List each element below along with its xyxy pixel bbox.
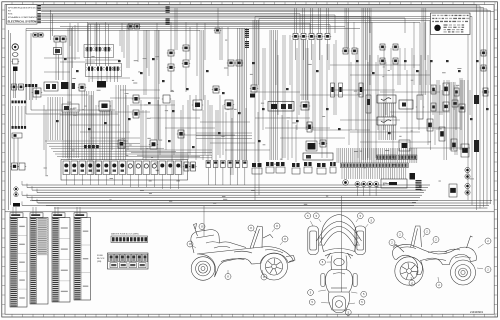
callout balloon	[356, 213, 363, 222]
relay K3	[85, 47, 93, 51]
wire bus vertical V1	[238, 28, 247, 160]
title block	[7, 5, 39, 25]
component RC2	[443, 83, 449, 95]
relay K11	[167, 64, 175, 71]
table header	[10, 213, 23, 218]
misc connectors	[56, 58, 489, 148]
wire bundle x155	[155, 30, 159, 140]
sensor B10	[132, 110, 140, 118]
sensor B8	[78, 84, 86, 91]
sensor B15	[306, 122, 313, 132]
wire bundle x175	[175, 8, 177, 50]
callout balloon	[309, 299, 330, 305]
wire	[295, 8, 297, 60]
callout balloon	[313, 213, 321, 222]
component RC9	[439, 127, 445, 141]
wire bundle x144	[144, 30, 146, 95]
switch panel outline	[61, 160, 188, 181]
sensor B7	[480, 65, 487, 71]
relay K5	[103, 47, 111, 51]
sensor B11	[177, 130, 185, 138]
connector CN4	[228, 161, 233, 186]
component RC8	[427, 119, 433, 131]
relay group outline B	[86, 64, 122, 77]
vehicle top view	[308, 215, 366, 313]
module M3	[98, 101, 111, 111]
callout balloon	[397, 232, 406, 241]
round connector RG1b	[465, 174, 470, 179]
connector row CL1	[12, 101, 27, 104]
callout balloon	[248, 225, 256, 233]
wire	[106, 22, 109, 66]
component RC11	[461, 144, 469, 157]
wire bundle H-mid	[125, 133, 252, 158]
dark mark DM1	[474, 95, 479, 104]
doc number	[470, 310, 484, 314]
wire texture mid extra	[208, 95, 296, 162]
callout balloon	[348, 299, 365, 305]
svg-text:RTS: RTS	[8, 13, 13, 15]
callout balloon	[431, 237, 439, 246]
wire bus bundle B	[41, 14, 405, 34]
sensor B12	[212, 86, 220, 93]
connector CJ2 pins	[38, 13, 41, 23]
table header	[30, 213, 43, 218]
wire fan F7	[379, 125, 396, 140]
switch SR13	[159, 161, 166, 189]
callout balloon	[261, 270, 267, 280]
module M7	[224, 100, 234, 109]
svg-text:(FB): (FB)	[97, 261, 102, 263]
relay K7	[95, 67, 103, 71]
relay K14	[235, 60, 243, 66]
relay K2	[59, 36, 67, 42]
wire bundle x270	[270, 30, 277, 160]
module M8 cluster	[268, 102, 294, 112]
wire drops right	[263, 35, 470, 158]
component RC6	[452, 100, 458, 107]
sensor B4	[379, 58, 386, 64]
sensor B16	[319, 140, 327, 147]
wire	[98, 71, 101, 82]
switch SR5	[95, 161, 102, 185]
module M1	[11, 59, 19, 64]
switch SR1	[63, 161, 70, 185]
wire fan F6	[379, 103, 396, 117]
callout balloon	[308, 290, 326, 296]
module M9	[300, 102, 310, 110]
switch SR2	[71, 161, 78, 185]
svg-text:219100919: 219100919	[470, 310, 484, 314]
lamp LP1	[331, 83, 335, 97]
relay K8	[104, 67, 112, 71]
wire labels	[44, 40, 474, 205]
module M11	[377, 95, 396, 103]
diode module D1	[12, 133, 22, 138]
switch SR9	[127, 161, 134, 187]
wire	[88, 22, 91, 66]
relay K13	[227, 60, 235, 66]
wire bus bundle A	[41, 5, 494, 211]
lamp LP3	[359, 83, 363, 97]
connector table T1	[10, 218, 27, 308]
switch SR11	[143, 161, 150, 187]
wire	[51, 10, 53, 40]
wire bundle H-main	[22, 181, 430, 205]
callout balloon	[305, 213, 313, 226]
connector CC3	[276, 162, 285, 173]
connector table T4	[74, 218, 91, 301]
sensor B2	[17, 84, 24, 90]
wire bundle x200	[200, 30, 204, 100]
relay K9	[112, 67, 120, 71]
vehicle side view right	[392, 226, 476, 285]
battery BAT1	[381, 179, 407, 188]
relay K12	[182, 45, 190, 51]
lamp LP4	[366, 95, 371, 113]
connector row CM1	[84, 145, 99, 148]
connector CC7	[330, 162, 336, 173]
striped table ST1	[416, 180, 422, 190]
connector P5	[324, 34, 331, 40]
connector P2	[300, 34, 307, 40]
junction cluster JB1	[25, 84, 37, 100]
module outline frame 1	[26, 33, 118, 114]
component RC12	[449, 184, 457, 197]
wire	[97, 22, 100, 66]
round connector RG2a	[465, 183, 470, 188]
connector CN6	[243, 161, 248, 186]
callout balloon	[409, 277, 415, 286]
fuse F2	[37, 33, 44, 37]
connector table T2	[30, 218, 48, 305]
wire	[218, 8, 220, 60]
switch SR17	[189, 162, 196, 171]
dark cluster C1	[61, 82, 75, 89]
wire	[115, 71, 118, 82]
dark mark	[250, 94, 255, 98]
wire bundle x345	[345, 8, 349, 48]
wire bundle x437	[437, 80, 439, 130]
switch SR16	[183, 162, 190, 171]
dark mark DM3	[410, 173, 416, 180]
connector CC5	[304, 162, 312, 173]
wire stubs to tables	[13, 207, 80, 214]
wire left vertical	[9, 30, 11, 210]
connector CJ1 pins	[38, 5, 41, 11]
ECM box	[303, 153, 333, 160]
switch SR4	[87, 161, 94, 185]
wire fan F1	[48, 97, 62, 140]
svg-text:BLOCK: BLOCK	[97, 258, 105, 260]
callout balloon	[225, 270, 231, 280]
callout balloon	[199, 224, 205, 232]
connector CC1	[252, 163, 262, 174]
separator line	[5, 211, 494, 213]
wire bundle x302	[302, 40, 307, 100]
callout balloon	[478, 238, 491, 248]
wire bundle H-left	[45, 141, 200, 157]
wire drops far right extra	[124, 22, 425, 72]
actuator A1	[149, 140, 158, 149]
relay K10	[167, 50, 175, 56]
sensor B14	[250, 85, 258, 92]
fuse block label	[97, 255, 105, 263]
relay K4	[94, 47, 102, 51]
sensor B9	[132, 95, 140, 103]
connector CL3	[13, 187, 20, 207]
svg-text:SPYDER RS&GS/ST/F3 GS X: SPYDER RS&GS/ST/F3 GS X	[8, 8, 38, 10]
wire	[327, 8, 329, 60]
table header	[52, 213, 65, 218]
speaker S1	[12, 53, 18, 57]
connector CT2	[245, 29, 249, 48]
connector CC4	[292, 163, 300, 174]
vehicle side view left	[191, 224, 295, 281]
wire	[13, 71, 15, 98]
switch SR7	[111, 161, 118, 185]
wire bundle x95	[95, 24, 97, 47]
harness outline	[88, 23, 310, 58]
wire bundle x422	[422, 8, 426, 95]
connector CT1	[166, 7, 170, 25]
sensor B3	[182, 60, 190, 67]
component RC3	[454, 88, 459, 96]
relay group outline A	[84, 45, 114, 58]
wire texture mid-left	[44, 95, 233, 175]
module M13	[399, 100, 413, 109]
svg-text:MOD: MOD	[70, 109, 76, 111]
module M12	[377, 117, 396, 125]
connector row CL2	[12, 106, 27, 129]
fuse F5	[214, 28, 221, 33]
callout balloon	[423, 229, 430, 238]
connector CN1	[206, 161, 211, 186]
wire bundle x460	[460, 78, 462, 150]
module M5	[162, 95, 171, 103]
wire bundle H-wide	[30, 201, 492, 209]
wire	[56, 42, 63, 80]
svg-text:ELECTRICAL SYSTEM: ELECTRICAL SYSTEM	[8, 19, 38, 23]
switch SW2	[18, 163, 26, 170]
wire fan F5	[116, 85, 126, 160]
wire	[107, 71, 110, 82]
switch SW0	[13, 67, 18, 72]
relay K17	[379, 44, 386, 50]
switch SR3	[79, 161, 86, 185]
wire	[303, 8, 305, 60]
wire pins above bar	[337, 148, 417, 163]
wire bundle x450	[450, 82, 454, 150]
svg-text:RT A-ARM & COMPONENTS: RT A-ARM & COMPONENTS	[8, 16, 37, 19]
component RC10	[451, 139, 457, 151]
round connector RC-A	[343, 180, 349, 186]
switch SR6	[103, 161, 110, 185]
connector bar C	[399, 155, 417, 160]
switch SR14	[167, 161, 174, 189]
connector CN2	[213, 161, 218, 186]
callout balloon	[272, 223, 280, 232]
wire bundle x68	[68, 28, 72, 160]
callout balloon	[187, 241, 196, 248]
switch SR12	[151, 161, 158, 187]
module M6	[192, 100, 203, 110]
dark module M10	[306, 141, 317, 151]
wire fan F3	[82, 91, 94, 160]
module M14	[399, 140, 410, 151]
wire mesh horizontals	[42, 58, 470, 150]
round connector row	[355, 182, 379, 197]
connector CN3	[221, 161, 226, 186]
dark mark DM2	[474, 140, 479, 152]
callout balloon	[280, 236, 288, 245]
wire pins below bar	[342, 168, 406, 179]
switch SW1	[10, 163, 18, 170]
wire	[171, 22, 186, 92]
connector CN5	[235, 161, 240, 186]
connector bar B	[377, 155, 397, 160]
callout balloon	[320, 259, 331, 265]
connector P4	[316, 34, 323, 40]
sensor B5	[392, 58, 399, 64]
relay block K20	[44, 82, 58, 91]
sensor B1	[10, 84, 17, 90]
fuse row table	[111, 233, 148, 243]
wire bundle right column extra	[431, 60, 465, 160]
wire to vehicle	[204, 196, 342, 292]
module M15	[416, 95, 424, 119]
callout balloon	[389, 240, 398, 248]
callout balloon	[365, 217, 374, 228]
relay K15	[342, 48, 349, 54]
solenoid L1	[54, 48, 62, 55]
table header	[74, 213, 87, 218]
switch SR15	[175, 161, 182, 189]
module M2	[32, 88, 42, 97]
callout balloon	[477, 267, 491, 273]
relay K1	[53, 36, 61, 42]
svg-text:FUSE: FUSE	[97, 255, 103, 257]
wire	[311, 8, 313, 60]
wire drops left	[70, 23, 228, 84]
connector CC2	[266, 162, 274, 173]
round connector RG1a	[465, 167, 470, 172]
module M4	[62, 104, 79, 112]
callout balloon	[351, 291, 367, 297]
instrument connector bar	[341, 163, 409, 168]
horn H1	[12, 44, 18, 50]
lamp LP2	[339, 83, 343, 97]
wire bus bundle C	[26, 17, 472, 206]
fuse block FB	[108, 253, 149, 269]
component RC5	[443, 102, 449, 111]
relay K6	[86, 67, 94, 71]
component RC4	[431, 103, 436, 111]
sensor B6	[480, 50, 487, 56]
callout balloon	[436, 277, 442, 288]
component RC1	[431, 85, 436, 94]
sensor B17	[482, 88, 489, 96]
callout balloon	[344, 310, 351, 316]
wire fan F4	[100, 111, 112, 160]
wire	[89, 71, 92, 82]
dark cluster C2	[97, 81, 106, 88]
fuse F3	[127, 24, 134, 29]
connector table T3	[52, 218, 70, 303]
connector P3	[308, 34, 315, 40]
fuse F1	[32, 33, 39, 37]
switch SR10	[135, 161, 142, 187]
legend table	[431, 13, 471, 35]
wire fan F2	[63, 112, 78, 158]
relay K18	[392, 44, 399, 50]
wire bundle x253	[253, 20, 258, 85]
component RC7	[459, 104, 465, 112]
wire bundle x362	[362, 8, 371, 160]
round connector RG2b	[465, 190, 470, 195]
wire	[14, 138, 18, 163]
svg-text:MASTER FUSE BLOCK (MFB): MASTER FUSE BLOCK (MFB)	[111, 233, 139, 236]
switch SR8	[119, 161, 126, 185]
connector P1	[292, 34, 299, 40]
fuse F4	[133, 24, 140, 29]
sensor B13	[117, 140, 126, 148]
connector CC6	[317, 163, 326, 174]
wire	[319, 8, 321, 60]
relay K16	[351, 48, 358, 54]
